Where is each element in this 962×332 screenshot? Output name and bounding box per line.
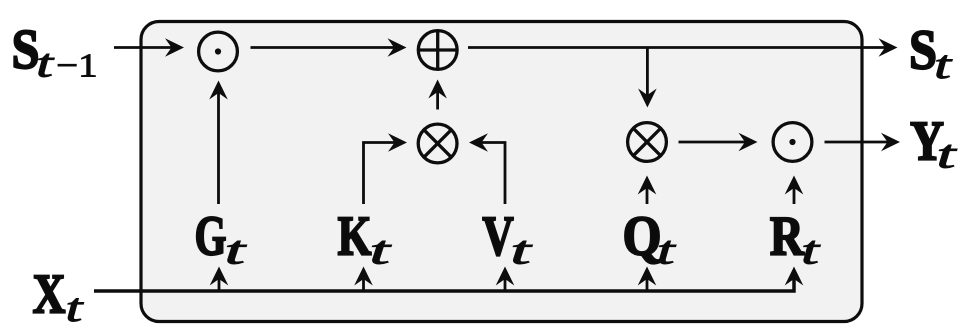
wire M3 to Y_t output [825, 141, 889, 144]
node X_t input label [33, 264, 84, 331]
branch arrow to G_t [218, 279, 221, 292]
wire A to adder [251, 46, 395, 49]
svg-text:S: S [909, 20, 937, 82]
wire K bent into M1 [364, 143, 395, 205]
node S_t output label [909, 20, 952, 88]
svg-text:t: t [801, 228, 820, 273]
wire adder to S_t output [468, 46, 886, 49]
operator M2: product (circle-times) right [628, 123, 667, 162]
branch arrow to K_t [362, 279, 365, 292]
svg-text:t: t [510, 228, 532, 273]
svg-text:−1: −1 [56, 48, 97, 85]
node S_{t-1} input label [12, 19, 98, 86]
svg-text:t: t [225, 228, 247, 273]
wire X_t bottom bus [94, 279, 794, 292]
svg-text:t: t [369, 228, 391, 273]
node G_t gate label [195, 206, 247, 273]
svg-text:X: X [33, 264, 66, 326]
wire M2 to M3 [679, 141, 746, 144]
operator M3: elementwise product (circle-dot) right [773, 123, 812, 162]
cell body box [141, 22, 862, 322]
wire branch down to M2 [646, 48, 649, 96]
svg-text:t: t [937, 132, 957, 177]
node Y_t output label [910, 111, 957, 177]
branch arrow to Q_t [646, 279, 649, 292]
branch arrow to V_t [504, 279, 507, 292]
node Q_t query label [623, 206, 676, 273]
svg-text:t: t [36, 41, 54, 86]
node V_t value label [482, 206, 532, 273]
svg-text:V: V [482, 206, 513, 268]
wire S_{t-1} input [114, 46, 172, 49]
wire G up to A [217, 93, 220, 205]
node R_t gate label [770, 206, 821, 273]
operator M1: outer product (circle-times) center [418, 124, 457, 163]
svg-text:Q: Q [623, 206, 662, 268]
node K_t key label [338, 206, 392, 273]
svg-text:t: t [934, 42, 952, 87]
svg-text:K: K [338, 206, 372, 268]
wire M1 up to adder [436, 92, 439, 110]
svg-text:G: G [195, 206, 227, 268]
svg-text:t: t [657, 228, 676, 273]
svg-text:R: R [770, 206, 804, 268]
wire R up to M3 [793, 188, 796, 205]
wire V bent into M1 [482, 143, 506, 205]
wire Q up to M2 [646, 188, 649, 205]
operator P: adder (circle-plus) [418, 31, 457, 70]
operator A: elementwise product (circle-dot) top left [199, 32, 238, 71]
svg-text:t: t [65, 285, 83, 330]
